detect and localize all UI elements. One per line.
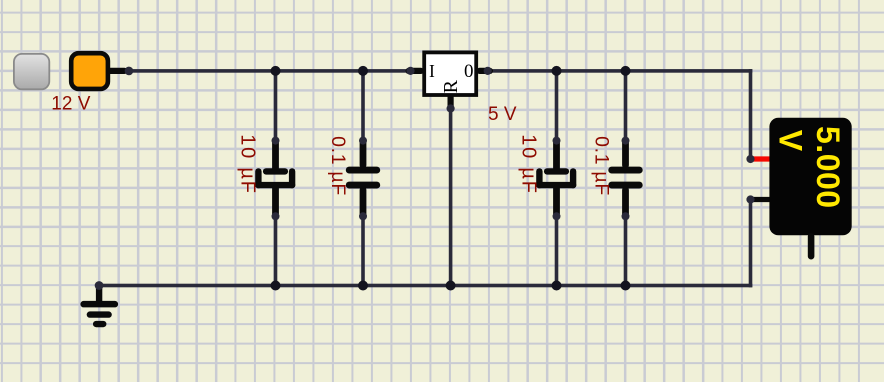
wire cap C3 top drop <box>555 71 559 141</box>
wire right vertical upper <box>749 69 753 160</box>
wire cap C2 top drop <box>361 71 365 141</box>
svg-text:5 V: 5 V <box>488 104 517 125</box>
ground bar 1 <box>80 301 118 308</box>
svg-text:V: V <box>772 130 808 152</box>
capacitor C1 top plate <box>263 168 288 174</box>
capacitor C1 10uF top lead <box>272 138 279 172</box>
junction dot C3 bottom <box>552 281 562 291</box>
ground bar 2 <box>87 311 112 317</box>
capacitor C1 cup bottom <box>255 182 295 188</box>
wire cap C4 top drop <box>624 71 628 141</box>
capacitor C1 bottom lead <box>272 185 279 217</box>
capacitor C1 cup right arm <box>289 168 295 188</box>
node dot C2 pin bottom <box>359 212 367 220</box>
capacitor C3 top plate <box>544 168 569 174</box>
node dot C3 pin bottom <box>553 212 561 220</box>
node dot C1 pin top <box>272 137 280 145</box>
node dot voltmeter minus <box>746 195 754 203</box>
svg-text:10 µF: 10 µF <box>237 134 259 195</box>
svg-text:0.1 µF: 0.1 µF <box>591 136 613 196</box>
capacitor C4 0.1uF top lead <box>622 138 629 169</box>
wire right vertical lower <box>749 199 753 287</box>
junction dot C4 bottom <box>621 281 631 291</box>
wire regulator ground drop <box>449 109 453 286</box>
node dot source output <box>125 67 134 76</box>
capacitor C2 bottom lead <box>360 187 367 218</box>
junction dot C4 top <box>621 66 631 76</box>
wire bottom bus <box>99 284 752 288</box>
capacitor C2 0.1uF top lead <box>360 138 367 169</box>
capacitor C3 cup bottom <box>536 182 576 188</box>
regulator U1 body <box>424 52 476 95</box>
node dot C4 pin top <box>622 137 630 145</box>
ground bar 3 <box>93 321 106 327</box>
regulator U1 left pin <box>406 68 425 74</box>
wire top left segment <box>127 69 413 73</box>
junction dot C1 top <box>271 66 281 76</box>
node dot regulator output <box>484 67 492 75</box>
node dot voltmeter plus <box>746 155 754 163</box>
junction dot C3 top <box>552 66 562 76</box>
junction dot C1 bottom <box>271 281 281 291</box>
regulator U1 bottom pin <box>448 95 454 112</box>
voltmeter M1 body <box>769 118 851 236</box>
capacitor C3 bottom lead <box>553 185 560 217</box>
capacitor C4 bottom plate <box>608 182 642 189</box>
push button S1 <box>14 54 49 89</box>
junction dot regulator ground <box>446 281 456 291</box>
capacitor C3 cup left arm <box>536 168 542 188</box>
node dot C1 pin bottom <box>272 212 280 220</box>
node dot ground <box>95 281 104 290</box>
svg-text:0: 0 <box>464 61 474 82</box>
node dot C3 pin top <box>553 137 561 145</box>
node dot regulator ground pin <box>447 104 455 112</box>
capacitor C2 top plate <box>346 167 380 174</box>
node dot C2 pin top <box>359 137 367 145</box>
svg-text:R: R <box>440 79 462 93</box>
voltmeter M1 bottom pin <box>808 233 815 260</box>
voltmeter M1 minus lead <box>747 197 773 202</box>
ground stem <box>96 283 102 303</box>
wire cap C3 bottom drop <box>555 216 559 286</box>
wire cap C1 bottom drop <box>274 216 278 286</box>
junction dot C2 bottom <box>358 281 368 291</box>
svg-text:10 µF: 10 µF <box>518 134 540 195</box>
voltmeter M1 plus lead red <box>747 156 773 161</box>
svg-text:5.000: 5.000 <box>810 126 846 209</box>
svg-text:12 V: 12 V <box>51 93 90 114</box>
svg-text:I: I <box>429 61 435 81</box>
node dot regulator input <box>406 67 414 75</box>
node dot C4 pin bottom <box>622 212 630 220</box>
wire cap C2 bottom drop <box>361 216 365 286</box>
junction dot C2 top <box>358 66 368 76</box>
voltage source V1 pin <box>107 68 128 74</box>
wire top right segment <box>487 69 752 73</box>
capacitor C4 bottom lead <box>622 187 629 218</box>
capacitor C3 cup right arm <box>570 168 576 188</box>
svg-text:0.1 µF: 0.1 µF <box>327 136 349 196</box>
capacitor C4 top plate <box>608 167 642 174</box>
wire cap C1 top drop <box>274 71 278 141</box>
capacitor C1 cup left arm <box>255 168 261 188</box>
capacitor C3 10uF top lead <box>553 138 560 172</box>
wire cap C4 bottom drop <box>624 216 628 286</box>
capacitor C2 bottom plate <box>346 182 380 189</box>
regulator U1 right pin <box>477 68 494 74</box>
voltage source V1 body <box>71 53 108 89</box>
